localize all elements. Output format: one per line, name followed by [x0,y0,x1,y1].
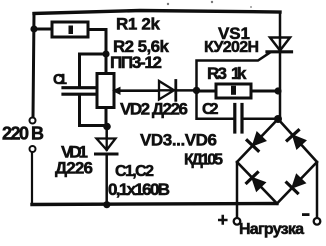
resistor R3 [197,84,278,98]
terminal minus [314,218,321,225]
svg-text:220 В: 220 В [2,124,44,144]
wire node to C1 top [80,54,107,87]
diode VD4 (top-right arm) [287,130,305,148]
speckle dots [167,3,169,5]
thyristor VS1 [267,12,292,119]
wire left vertical (220V upper lead) [33,14,34,118]
svg-text:КД105: КД105 [184,152,223,169]
svg-text:C2: C2 [202,101,219,118]
capacitor C2 [235,105,242,133]
node junction R1/R2/C1 [102,50,109,57]
terminal plus [234,218,241,225]
diode VD1 [96,126,118,204]
diode VD5 (bottom-left arm) [247,173,265,191]
wire R1 to node [105,30,108,55]
svg-text:0,1x160В: 0,1x160В [108,180,170,199]
diode VD2 [159,81,197,101]
svg-text:КУ202Н: КУ202Н [204,39,259,56]
terminal 220V lower [30,146,36,152]
resistor R1 [34,22,106,37]
svg-text:C1,C2: C1,C2 [115,163,154,180]
node junction VD1/bottom bus [103,201,110,208]
wire C2 to bridge node [244,118,279,121]
svg-text:1k: 1k [231,64,247,83]
wire bottom bus [32,204,277,205]
diode VD6 (bottom-right arm) [287,175,305,193]
svg-text:ПП3-12: ПП3-12 [110,53,162,72]
node junction VD2/R3/gate [193,87,200,94]
wire top bus [34,11,280,14]
label minus [302,213,310,216]
node junction R3/VS1 cathode line [274,87,281,94]
wire C1 bottom to node [80,96,107,126]
svg-text:Нагрузка: Нагрузка [239,221,304,238]
diode VD3 (top-left arm) [247,132,265,150]
potentiometer R2 [97,54,159,126]
wire bridge plus lead [236,162,239,218]
svg-text:C1: C1 [53,71,67,88]
svg-text:VD2 Д226: VD2 Д226 [120,100,188,119]
wire 220V lower lead [31,153,33,205]
svg-text:R1 2k: R1 2k [116,15,161,34]
svg-text:+: + [218,210,229,230]
node junction left [30,25,37,32]
svg-text:Д226: Д226 [55,159,93,178]
wire gate of VS1 [197,53,271,91]
terminal 220V upper [30,118,36,124]
node junction C2/bridge/VS1 [274,115,282,123]
svg-text:R3: R3 [207,64,227,83]
node junction R2/C1/VD1 [103,123,111,131]
bridge rectifier diamond [237,119,317,204]
wire node to C2 [197,91,234,119]
capacitor C1 [63,88,94,95]
wire bridge minus lead [316,162,319,218]
svg-text:VD3...VD6: VD3...VD6 [140,131,217,150]
